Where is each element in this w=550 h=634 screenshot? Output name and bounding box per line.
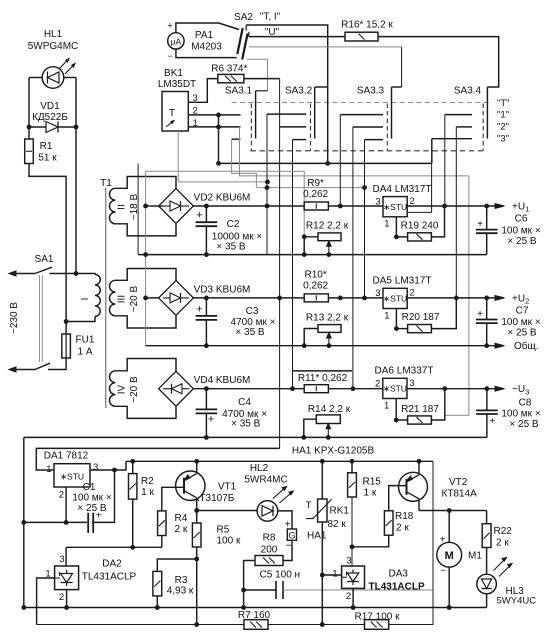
- node: ch1 at 340.3: [338, 204, 343, 209]
- node: DA1 out C1 riser: [112, 468, 117, 473]
- svg-text:1: 1: [332, 569, 337, 580]
- svg-text:2 к: 2 к: [396, 523, 409, 534]
- svg-text:R15: R15: [363, 477, 382, 488]
- node: VT1 collector: [194, 508, 199, 513]
- node: R8 drop at gnd bus: [241, 605, 246, 610]
- svg-text:R16* 15,2 к: R16* 15,2 к: [341, 20, 393, 31]
- wire: BK1 pin3 to R6: [188, 79, 218, 103]
- svg-text:2: 2: [375, 379, 380, 390]
- node: ch1 at 267: [265, 204, 270, 209]
- wire: R10 to DA5: [328, 297, 383, 299]
- svg-text:R4: R4: [175, 513, 188, 524]
- svg-text:+: +: [96, 511, 102, 522]
- wire: left vertical B with bus171: [146, 170, 305, 172]
- svg-text:R3: R3: [175, 575, 188, 586]
- svg-text:DA2: DA2: [102, 559, 122, 570]
- svg-text:+: +: [490, 416, 496, 427]
- node: ch1 C2 tap: [204, 204, 209, 209]
- wire: SA3.2 contact3 drop: [292, 140, 294, 389]
- svg-text:−: −: [168, 51, 173, 61]
- T1 secondary winding II: [115, 177, 176, 190]
- wire: stub below DA4: [384, 211, 432, 213]
- wire: T-bus: [219, 162, 432, 164]
- T1 core: [105, 188, 107, 408]
- node: rail2 R13 arrow: [327, 343, 332, 348]
- wire: HL3 bottom to gnd bus: [486, 594, 488, 608]
- wire: R16 to SA3.4 feeder: [378, 37, 499, 87]
- svg-text:VT2: VT2: [449, 477, 468, 488]
- node: ch3 at 292.5: [290, 386, 295, 391]
- node: +U2 at C7: [484, 296, 489, 301]
- node: rail12 R2: [130, 459, 135, 464]
- switch SA3 dashed coupling upper: [232, 102, 491, 104]
- wire: R20 to +U2: [431, 298, 456, 329]
- svg-text:82 к: 82 к: [328, 519, 347, 530]
- node: ch3 C4 tap: [204, 386, 209, 391]
- svg-text:TL431ACLP: TL431ACLP: [369, 582, 425, 593]
- svg-text:КД522Б: КД522Б: [32, 112, 68, 123]
- svg-text:~20 В: ~20 В: [129, 286, 140, 313]
- wire: RK1 bottom long: [321, 522, 323, 625]
- wire: FU1 top: [65, 322, 67, 335]
- wire: SA2 T,I line to SA3.2 feeder: [246, 25, 328, 87]
- output -U3 arrow: [495, 386, 505, 391]
- wire: DA2 ref to bus2: [37, 578, 55, 625]
- node: ch3 at 352.9: [351, 386, 356, 391]
- svg-text:× 25 В: × 25 В: [509, 419, 539, 430]
- switch SA3.3 link: [386, 104, 388, 151]
- wire: R1 bottom to primary bottom feeder: [29, 164, 66, 322]
- SA3.3 contact 1: [340, 114, 383, 116]
- node: pin2 junction: [216, 113, 221, 118]
- svg-text:∗STU: ∗STU: [383, 202, 407, 212]
- wire: R18 bottom to DA3 node: [352, 535, 389, 547]
- svg-text:III: III: [117, 295, 128, 303]
- svg-text:VD4 KBU6M: VD4 KBU6M: [194, 375, 251, 386]
- svg-text:100 мк ×: 100 мк ×: [501, 226, 540, 237]
- node: -U3 at R21 riser: [442, 386, 447, 391]
- LED HL1: [29, 77, 43, 79]
- node: rail2 C7: [484, 343, 489, 348]
- switch SA3 dashed coupling lower: [250, 150, 482, 152]
- svg-text:Т: Т: [306, 500, 312, 510]
- node: rail2 R13 left: [302, 343, 307, 348]
- bridge rectifier VD2: [159, 189, 194, 224]
- svg-text:"T, I": "T, I": [260, 12, 281, 23]
- svg-text:5WPG4MC: 5WPG4MC: [28, 41, 79, 52]
- node: pin1 junction: [216, 125, 221, 130]
- svg-text:С3: С3: [246, 306, 259, 317]
- wire: bus2 right to rail12 corner: [389, 461, 433, 624]
- node: collector at M1: [447, 508, 452, 513]
- svg-text:× 25 В: × 25 В: [507, 236, 537, 247]
- wire: SA1 lower to FU1 bottom: [48, 358, 66, 370]
- wire: DA6 out to -U3: [407, 388, 498, 390]
- node: DA6 adj: [394, 418, 399, 423]
- svg-text:RK1: RK1: [330, 506, 350, 517]
- svg-text:LM35DT: LM35DT: [158, 79, 196, 90]
- wire: SA3.1 contact3 drop: [232, 139, 257, 187]
- node: bus2 at RK1 drop: [320, 622, 325, 627]
- svg-text:М: М: [445, 550, 454, 562]
- node: ch2 at 364.5: [362, 296, 367, 301]
- svg-text:× 35 В: × 35 В: [235, 327, 265, 338]
- wire: DA6 adj pin down: [395, 399, 397, 421]
- svg-text:R14 2,2 к: R14 2,2 к: [308, 404, 351, 415]
- node: FU1 top junction: [64, 319, 69, 324]
- node: M1 at gnd bus: [447, 605, 452, 610]
- svg-text:51 к: 51 к: [38, 153, 57, 164]
- svg-text:VT1: VT1: [218, 482, 237, 493]
- node: DA2 anode at gnd bus: [64, 605, 69, 610]
- wire: SA3.4 contact2 drop: [455, 127, 457, 298]
- svg-text:R8: R8: [263, 532, 276, 543]
- temperature sensor BK1: [162, 92, 188, 132]
- T1 secondary winding IV: [115, 359, 176, 372]
- svg-text:0,262: 0,262: [303, 281, 328, 292]
- svg-text:∗STU: ∗STU: [60, 472, 84, 482]
- wire: DA5 adj pin down: [395, 309, 397, 329]
- wire: VT2 collector line: [419, 510, 487, 512]
- HL3 emission arrows: [494, 558, 507, 571]
- bridge rectifier VD3: [159, 281, 194, 316]
- wire: SA2 U line to R16: [249, 36, 345, 38]
- wire: SA3.3 contact2 drop: [352, 127, 354, 389]
- svg-text:R20 187: R20 187: [402, 312, 440, 323]
- wire: SA3.4 contact1 drop: [444, 115, 446, 206]
- node: +U1 at R19 riser: [442, 204, 447, 209]
- node: rail1 C2: [204, 252, 209, 257]
- wire: R21 to -U3: [431, 389, 444, 420]
- R13 wiper arrow: [328, 334, 330, 346]
- wire: DA3 anode down: [352, 588, 354, 607]
- node: VD1 left junction: [27, 125, 32, 130]
- wire: DA2 anode down: [66, 590, 68, 608]
- svg-text:II: II: [117, 204, 128, 210]
- svg-text:FU1: FU1: [76, 335, 95, 346]
- wire: BK1 pins down to T-bus: [218, 115, 220, 163]
- node: left vert at C1 line: [21, 520, 26, 525]
- bridge rectifier VD4: [159, 371, 194, 406]
- node: DA3 anode at gnd bus: [351, 605, 356, 610]
- rail: lower gnd short: [66, 546, 162, 548]
- svg-text:Т: Т: [169, 107, 176, 119]
- svg-text:+: +: [477, 309, 483, 320]
- wire: channel2 line: [146, 297, 159, 299]
- wire: C5 right: [283, 589, 433, 591]
- wire: R3 bottom: [156, 596, 158, 608]
- svg-text:−: −: [286, 541, 292, 552]
- wire: DA3 ref left: [322, 574, 341, 576]
- node: bus187 right end: [362, 185, 367, 190]
- wire: left vertical of lower board: [23, 437, 25, 607]
- wire: VT1 collector down: [196, 498, 198, 511]
- svg-text:SA3.3: SA3.3: [357, 86, 385, 97]
- svg-text:DA6 LM337T: DA6 LM337T: [375, 366, 434, 377]
- svg-text:100 к: 100 к: [217, 536, 241, 547]
- svg-text:КТ814А: КТ814А: [442, 489, 478, 500]
- node: B at rail1: [143, 252, 148, 257]
- output +U2 arrow: [495, 296, 505, 301]
- wire: PA1 minus to SA2: [176, 49, 237, 58]
- svg-text:1: 1: [384, 219, 389, 230]
- bus: lower gnd: [24, 607, 487, 609]
- SA3.4 contact 1: [445, 114, 472, 116]
- wire: DA4 adj pin down: [395, 217, 397, 237]
- svg-text:× 25 В: × 25 В: [77, 503, 107, 514]
- node: rail3 R14 arrow: [326, 435, 331, 440]
- wire: BK1 pin2 to SA3.1: [188, 114, 240, 116]
- wire: R15 bottom to DA3 cathode: [351, 497, 353, 566]
- T1 primary winding I: [76, 273, 95, 276]
- svg-text:~230 В: ~230 В: [9, 302, 20, 334]
- wire: SA2 lower line to SA3.3 feeder: [249, 46, 402, 48]
- svg-text:3: 3: [93, 462, 98, 473]
- wire: DA4 adj to R19: [396, 236, 407, 238]
- rail: channel3 minus: [24, 436, 487, 438]
- node: -U3 at C8: [485, 386, 490, 391]
- svg-text:1 А: 1 А: [77, 347, 92, 358]
- node: +U1 at C6: [484, 204, 489, 209]
- SA3.3 contact 3: [365, 139, 384, 141]
- wire: SA3.2 contact1 drop to channel1: [266, 114, 268, 255]
- svg-text:С5 100 н: С5 100 н: [260, 570, 301, 581]
- switch SA3.1 link: [250, 104, 252, 151]
- wire: R19 to +U1: [431, 206, 444, 237]
- svg-text:× 25 В: × 25 В: [507, 328, 537, 339]
- wire: VT1 emitter up: [196, 461, 198, 473]
- svg-text:2: 2: [59, 592, 64, 603]
- svg-text:M1: M1: [468, 551, 482, 562]
- svg-text:"Т": "Т": [497, 98, 510, 109]
- svg-text:+: +: [477, 219, 483, 230]
- svg-text:2 к: 2 к: [496, 538, 509, 549]
- wire: DA1 input line: [36, 448, 279, 470]
- wire: DA1 gnd pin down: [65, 487, 67, 522]
- bus: feedback with R7 R17: [37, 624, 244, 626]
- node: rail12 VT1 emitter: [194, 459, 199, 464]
- SA3.2 contact 2: [280, 126, 307, 128]
- svg-text:PA1: PA1: [195, 30, 214, 41]
- wire: bus above R11: [292, 370, 352, 372]
- svg-text:SA3.1: SA3.1: [225, 86, 253, 97]
- svg-text:R1: R1: [40, 141, 53, 152]
- wire: R12 left to rail1: [304, 237, 318, 255]
- node: T-bus at T,I feeder: [325, 161, 330, 166]
- SA3.4 contact 2: [456, 126, 472, 128]
- rail: common: [146, 345, 498, 347]
- wire: BK1 bottom bus: [178, 181, 267, 183]
- node: C1 line DA1 gnd: [64, 520, 69, 525]
- svg-text:R11* 0,262: R11* 0,262: [298, 373, 348, 384]
- node: RK1 at DA3 ref: [320, 573, 325, 578]
- svg-text:DA5 LM317T: DA5 LM317T: [373, 276, 432, 287]
- wire: SA2 second lower contact to SA3.1 wiper feeder: [247, 58, 268, 60]
- svg-text:VD3 KBU6M: VD3 KBU6M: [194, 284, 251, 295]
- node: DA5 adj: [394, 326, 399, 331]
- svg-text:R22: R22: [494, 526, 513, 537]
- svg-text:SA1: SA1: [35, 254, 54, 265]
- output Obsh arrow: [495, 343, 505, 348]
- svg-text:3: 3: [375, 288, 380, 299]
- svg-text:+: +: [167, 21, 172, 31]
- wire: DA1 out to rail12: [90, 461, 126, 470]
- svg-text:VD2 KBU6M: VD2 KBU6M: [194, 193, 251, 204]
- svg-text:С6: С6: [515, 214, 528, 225]
- svg-text:R5: R5: [217, 525, 230, 536]
- node: rail1 R12 arrow: [327, 252, 332, 257]
- meter PA1: [168, 33, 184, 49]
- node: rail12 VT2 emitter: [417, 459, 422, 464]
- node: rail2 C3: [204, 343, 209, 348]
- svg-text:4,93 к: 4,93 к: [167, 586, 194, 597]
- wire: gray vertical to DA6 adj: [445, 176, 469, 415]
- svg-text:5WY4UC: 5WY4UC: [497, 596, 537, 607]
- node: B at ch1: [143, 204, 148, 209]
- svg-text:× 35 В: × 35 В: [216, 242, 246, 253]
- wire: R14 left to rail3: [304, 419, 317, 437]
- wire: DA2 cathode to gnd rail: [65, 547, 67, 566]
- node: R8 drop at C5: [241, 588, 246, 593]
- svg-text:1 к: 1 к: [364, 488, 377, 499]
- wire: gray bus 176: [240, 127, 469, 176]
- wire: R1 top: [28, 127, 30, 139]
- svg-text:Общ.: Общ.: [514, 340, 539, 352]
- wire: C1 line left: [24, 521, 87, 523]
- svg-text:0,262: 0,262: [303, 189, 328, 200]
- svg-text:+: +: [196, 210, 202, 222]
- svg-text:"1": "1": [497, 110, 509, 121]
- svg-text:R19 240: R19 240: [401, 221, 439, 232]
- svg-text:С2: С2: [227, 219, 240, 230]
- svg-text:2: 2: [346, 591, 351, 602]
- svg-text:С7: С7: [516, 306, 529, 317]
- svg-text:2: 2: [410, 288, 415, 299]
- svg-text:T1: T1: [100, 178, 112, 189]
- svg-text:SA3.4: SA3.4: [454, 86, 482, 97]
- mains input arrow upper: [11, 273, 35, 275]
- SA3.2 contact 1: [267, 113, 306, 115]
- thermistor RK1: [321, 461, 323, 499]
- svg-text:DA1 7812: DA1 7812: [44, 451, 89, 462]
- HL1 emission arrows: [59, 59, 69, 70]
- svg-text:3: 3: [59, 554, 64, 565]
- wire: channel1 line: [159, 205, 163, 207]
- svg-text:1: 1: [384, 400, 389, 411]
- capacitor C4: [205, 389, 207, 410]
- svg-text:VD1: VD1: [40, 101, 60, 112]
- wire: bus 187: [256, 187, 364, 189]
- wire: VT2 base to R18: [389, 486, 407, 511]
- svg-text:+: +: [196, 303, 202, 315]
- node: DA4 adj: [394, 235, 399, 240]
- HL2 emission arrows: [273, 487, 287, 499]
- wire: R5 node to R3: [157, 559, 196, 571]
- wire: VT1 base to R4: [162, 487, 184, 511]
- wire: T,I feeder continues to T-bus: [327, 87, 329, 163]
- switch SA1 blade lower: [35, 363, 50, 369]
- svg-text:R21 187: R21 187: [401, 404, 439, 415]
- node: rail3 C4: [204, 435, 209, 440]
- wire: DA5 out to +U2: [407, 297, 498, 299]
- resistor R1: [25, 139, 34, 164]
- R12 wiper arrow: [328, 243, 330, 255]
- wire: VT2 collector down: [418, 499, 420, 511]
- svg-text:2: 2: [59, 490, 64, 501]
- wire: SA3.4 contact3 drop: [431, 139, 433, 164]
- node: gnd rail R2: [130, 545, 135, 550]
- node: bus187 at SA3.2 contact1 drop: [265, 185, 270, 190]
- node: rail3 R14 left: [301, 435, 306, 440]
- wire: C1 right to DA1 out: [93, 470, 114, 522]
- node: gnd bus left: [21, 605, 26, 610]
- svg-text:I: I: [80, 298, 91, 301]
- wire: collector line to HL2: [197, 510, 258, 512]
- svg-text:С4: С4: [238, 397, 251, 408]
- wire: HL1 right branch: [75, 78, 77, 128]
- wire: SA3.2 contact2 drop long: [279, 79, 281, 449]
- node: ch2 C3 tap: [204, 296, 209, 301]
- svg-text:IV: IV: [117, 384, 128, 394]
- wire: VD1 right branch down to primary top: [75, 127, 77, 274]
- wire: SA3.3 contact3 drop: [364, 140, 366, 298]
- svg-text:2 к: 2 к: [175, 524, 188, 535]
- svg-text:3: 3: [409, 378, 414, 389]
- node: +U2 at R20 riser: [454, 296, 459, 301]
- wire: R9 to DA4: [328, 205, 383, 207]
- wire: R13 left to rail2: [304, 329, 318, 346]
- wire: buzzer to R8: [283, 540, 292, 560]
- node: R5 bottom node: [194, 557, 199, 562]
- wire: left vertical A: [137, 163, 139, 254]
- wire: DA4 out to +U1: [407, 205, 498, 207]
- node: T-bus left: [216, 161, 221, 166]
- svg-text:200: 200: [261, 545, 278, 556]
- SA3.2 contact 3: [293, 139, 307, 141]
- svg-text:SA3.2: SA3.2: [285, 86, 313, 97]
- svg-text:НА1: НА1: [307, 531, 327, 542]
- wire: DA5 adj to R20: [396, 328, 407, 330]
- svg-text:100 мк ×: 100 мк ×: [72, 493, 111, 504]
- svg-text:3: 3: [375, 196, 380, 207]
- wire: R6 right to feeder: [244, 78, 280, 80]
- node: rail1 R12 left: [302, 252, 307, 257]
- rail: channel1 minus: [138, 254, 487, 256]
- wire: PA1 plus to SA2: [176, 23, 239, 33]
- svg-text:BK1: BK1: [164, 68, 183, 79]
- svg-text:R9*: R9*: [307, 178, 324, 189]
- svg-text:100 мк ×: 100 мк ×: [501, 317, 540, 328]
- svg-text:R18: R18: [395, 511, 414, 522]
- rail: +12V: [126, 460, 433, 462]
- switch SA3.2 link: [310, 104, 312, 151]
- svg-text:3: 3: [346, 556, 351, 567]
- svg-text:HL1: HL1: [44, 29, 63, 40]
- svg-text:НА1 KPX-G1205B: НА1 KPX-G1205B: [292, 445, 375, 456]
- svg-text:М4203: М4203: [191, 42, 222, 53]
- node: bus2 at R5 node drop: [194, 622, 199, 627]
- wire: M1 bottom: [448, 567, 450, 607]
- wire: R22 to HL3: [486, 548, 488, 575]
- wire: BK1 pin1 to SA3.1: [188, 126, 240, 128]
- svg-text:+: +: [208, 414, 214, 426]
- svg-text:G: G: [288, 531, 295, 541]
- output +U1 arrow: [495, 204, 505, 209]
- mains input arrow lower: [11, 369, 35, 371]
- wire: DA6 adj to R21: [396, 419, 407, 421]
- wire: HL2 to buzzer: [278, 511, 292, 529]
- node: bus181 end: [265, 180, 270, 185]
